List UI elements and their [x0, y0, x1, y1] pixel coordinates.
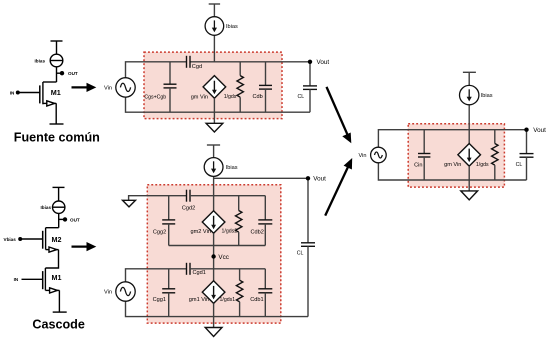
wire ground stub (gate M2) [129, 196, 187, 201]
node OUT [60, 71, 64, 75]
node Vcc [211, 254, 215, 258]
capacitor Cgd [187, 56, 191, 68]
svg-text:Cgd1: Cgd1 [193, 270, 206, 276]
svg-text:1/gds: 1/gds [224, 94, 237, 100]
wire M1 source to ground [58, 290, 60, 312]
wire source to ground [55, 103, 57, 124]
svg-text:CL: CL [297, 251, 304, 257]
source Vin (simplified) [371, 147, 387, 163]
svg-text:Cdb1: Cdb1 [250, 297, 263, 303]
supply bar (simplified model) [463, 71, 476, 73]
capacitor Cgs+Cgb [164, 84, 177, 88]
ground (fuente comun) [50, 123, 64, 125]
wire gm to bottom (simplified) [468, 166, 470, 180]
supply bar (fuente comun) [51, 40, 63, 42]
arrow top model to simplified model [327, 87, 352, 143]
svg-text:gm2 Vin: gm2 Vin [191, 229, 211, 235]
svg-text:IN: IN [10, 90, 15, 95]
capacitor Cdb2 [258, 196, 272, 246]
svg-text:Vout: Vout [317, 59, 330, 66]
svg-text:Cgd2: Cgd2 [182, 206, 195, 212]
svg-text:Ibias: Ibias [226, 165, 238, 171]
svg-text:CL: CL [298, 94, 305, 100]
wire IN to gate [20, 92, 40, 94]
source gm1 Vin [202, 281, 225, 304]
wire Vbias to gate [22, 238, 43, 240]
svg-text:Cgd: Cgd [192, 64, 202, 70]
wire top rail (Vin to Cgd) [126, 62, 187, 78]
wire gm1 column top [213, 269, 215, 281]
capacitor Cgd2 [187, 190, 191, 202]
wire drain lead M2 [46, 227, 59, 229]
svg-text:Vin: Vin [104, 85, 112, 91]
wire gate branch [169, 62, 171, 84]
svg-text:Cascode: Cascode [32, 318, 85, 332]
svg-text:Ibias: Ibias [481, 93, 493, 99]
node Vout (cascode model) [306, 176, 310, 180]
wire Cgd2 to Cdb2 rail [190, 195, 265, 197]
wire Vout rail (cascode model) [214, 177, 308, 179]
highlight box (cascode model) [147, 185, 280, 323]
source gm Vin (top model) [203, 76, 226, 99]
wire Cgg2 to stage rail [168, 224, 170, 246]
wire supply to Ibias [56, 41, 58, 54]
wire Cgs+Cgb to bottom [169, 88, 171, 112]
capacitor Cgd1 [187, 263, 191, 275]
current source Ibias (top model) [205, 17, 224, 36]
wire to ground (top model) [213, 112, 215, 123]
svg-text:Cgs+Cgb: Cgs+Cgb [144, 94, 166, 100]
wire OUT stub (cascode) [59, 218, 64, 220]
wire stage2 top rail (Vin side) [126, 269, 187, 282]
wire stage1 bottom rail [169, 245, 266, 247]
wire Ibias to drain [56, 67, 58, 82]
svg-text:Vin: Vin [359, 153, 367, 159]
svg-text:1/gds2: 1/gds2 [222, 229, 238, 235]
capacitor Cin [418, 130, 430, 180]
node OUT (cascode) [63, 217, 67, 221]
wire gm1 to bottom rail [213, 303, 215, 316]
wire gm to bottom [213, 98, 215, 112]
svg-text:1/gds: 1/gds [476, 162, 489, 168]
svg-text:Fuente común: Fuente común [14, 130, 100, 144]
current source Ibias (fuente comun) [50, 54, 63, 67]
wire supply to Ibias (simplified) [468, 72, 470, 85]
wire top rail (Cgd to Vout) [190, 61, 310, 63]
source arrow M1 [47, 101, 55, 106]
wire Cgd1 to Cdb1 rail [190, 268, 265, 270]
svg-text:Vbias: Vbias [4, 237, 17, 242]
wire to ground (cascode model) [213, 317, 215, 328]
node Vout (simplified) [524, 128, 528, 132]
svg-text:Cgg2: Cgg2 [153, 229, 166, 235]
svg-text:OUT: OUT [68, 71, 78, 76]
capacitor Cgg2 [162, 220, 175, 224]
supply bar (cascode model) [207, 144, 220, 146]
wire top rail (simplified) [378, 130, 526, 148]
wire source lead M1 [43, 102, 56, 104]
transistor M1 (fuente comun) [40, 82, 43, 104]
ground (cascode model) [205, 328, 222, 337]
wire Cgg1 to bottom rail [168, 293, 170, 317]
node Vbias [18, 237, 22, 241]
transistor M1 (cascode) [43, 268, 46, 290]
wire IN to gate (cascode) [22, 278, 43, 280]
source gm2 Vin [202, 211, 225, 234]
wire gm2 to stage rail [213, 233, 215, 245]
svg-text:gm Vin: gm Vin [444, 162, 461, 168]
ground (gate M2) [123, 200, 136, 207]
arrow cascode to model [72, 242, 97, 251]
source gm Vin (simplified) [458, 144, 481, 167]
wire supply to Ibias (cascode) [58, 187, 60, 201]
wire Ibias down to gm2 [213, 176, 215, 210]
ground (cascode) [53, 311, 67, 313]
capacitor CL (simplified) [520, 130, 534, 180]
svg-text:OUT: OUT [70, 217, 80, 222]
svg-text:1/gds1: 1/gds1 [220, 297, 236, 303]
wire supply to Ibias (cascode model) [213, 145, 215, 158]
svg-text:Vcc: Vcc [218, 254, 229, 261]
resistor 1/gds (top model) [237, 62, 243, 112]
wire bottom rail [126, 97, 311, 112]
wire OUT stub [57, 72, 62, 74]
svg-text:gm1 Vin: gm1 Vin [189, 297, 209, 303]
supply bar (top model) [209, 3, 220, 5]
wire source lead M1 (cascode) [45, 289, 59, 291]
wire bottom rail (simplified) [378, 163, 526, 180]
wire drain lead M1 [43, 81, 57, 83]
svg-text:Cin: Cin [414, 162, 422, 168]
svg-text:Ibias: Ibias [41, 205, 52, 210]
svg-text:Ibias: Ibias [226, 24, 238, 30]
capacitor Cdb1 [258, 269, 272, 317]
node Vout (top model) [308, 60, 312, 64]
capacitor Cdb [259, 62, 272, 112]
svg-text:Cgg1: Cgg1 [153, 297, 166, 303]
svg-text:Cdb2: Cdb2 [251, 229, 264, 235]
ground (top model) [206, 123, 223, 132]
capacitor CL (cascode model) [301, 178, 315, 316]
wire Ibias to M2 drain [58, 213, 60, 227]
svg-text:Vout: Vout [533, 127, 546, 134]
highlight box (top model) [144, 52, 282, 119]
wire Cgg1 branch [168, 269, 170, 289]
transistor M2 [43, 228, 46, 250]
node IN [16, 91, 20, 95]
source Vin (top model) [116, 78, 135, 97]
supply bar (cascode) [53, 186, 65, 188]
source arrow M1 (cascode) [50, 288, 58, 293]
wire bottom rail (cascode model) [126, 301, 309, 316]
capacitor Cgg1 [162, 289, 175, 293]
svg-text:Vin: Vin [104, 290, 112, 296]
svg-text:Vout: Vout [313, 176, 326, 183]
svg-text:CL: CL [516, 162, 523, 168]
ground (simplified) [461, 191, 478, 200]
resistor 1/gds (simplified) [492, 130, 498, 180]
highlight box (simplified model) [408, 124, 504, 187]
wire Cgg2 branch [168, 196, 170, 220]
wire to ground (simplified) [468, 180, 470, 191]
svg-text:M2: M2 [52, 235, 62, 244]
source arrow M2 [49, 247, 57, 252]
arrow fuente comun to model [72, 83, 97, 92]
current source Ibias (simplified) [460, 85, 479, 104]
svg-text:M1: M1 [51, 88, 61, 97]
source Vin (cascode model) [116, 282, 135, 301]
svg-text:Cdb: Cdb [253, 94, 263, 100]
wire Ibias down to gm (simplified) [468, 105, 470, 144]
wire M2 source to M1 drain [45, 250, 58, 268]
svg-text:IN: IN [14, 277, 19, 282]
resistor 1/gds2 [236, 196, 242, 246]
wire source lead M2 [46, 249, 59, 251]
wire Ibias to top rail [213, 35, 215, 62]
current source Ibias (cascode) [53, 201, 65, 213]
arrow cascode model to simplified model [325, 158, 352, 216]
wire supply to Ibias [213, 4, 215, 17]
svg-text:Ibias: Ibias [35, 58, 46, 63]
svg-text:M1: M1 [52, 273, 62, 282]
capacitor CL (top model) [303, 62, 317, 112]
resistor 1/gds1 [236, 269, 242, 317]
wire Vcc column [213, 246, 215, 269]
svg-text:gm Vin: gm Vin [191, 94, 208, 100]
current source Ibias (cascode model) [204, 158, 223, 177]
